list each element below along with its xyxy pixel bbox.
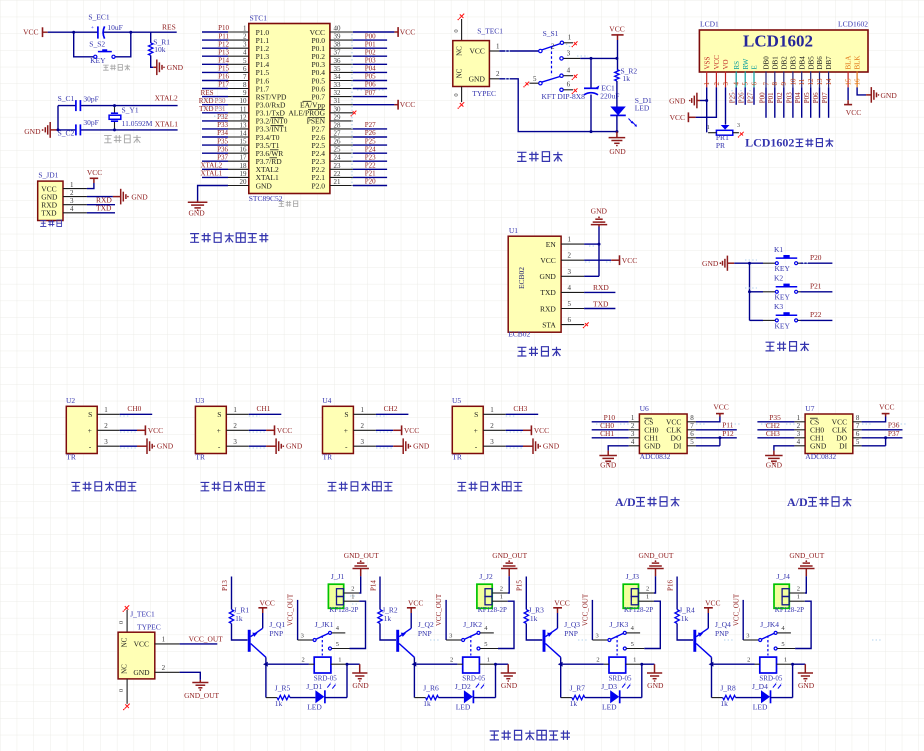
- wire pin 33: [353, 88, 387, 90]
- svg-text:2: 2: [551, 42, 555, 50]
- svg-text:6: 6: [690, 430, 694, 438]
- svg-text:P2.0: P2.0: [311, 181, 325, 190]
- wire pin 3: [202, 47, 228, 49]
- svg-text:3: 3: [490, 438, 494, 446]
- ground (U5): [506, 445, 523, 447]
- junction: [590, 130, 593, 133]
- wire pin 22: [353, 176, 387, 178]
- svg-text:J_Q2: J_Q2: [418, 620, 434, 629]
- U5 pin 1: [483, 413, 506, 415]
- svg-text:14: 14: [240, 130, 248, 138]
- svg-text:P03: P03: [365, 57, 376, 65]
- svg-text:P10: P10: [218, 24, 229, 32]
- wire R to base: [677, 624, 693, 641]
- svg-text:J_R6: J_R6: [423, 684, 439, 693]
- svg-text:KEY: KEY: [90, 56, 106, 65]
- svg-text:VCC_OUT: VCC_OUT: [582, 593, 590, 626]
- ground (U2): [120, 445, 137, 447]
- svg-text:LED: LED: [635, 104, 650, 113]
- svg-text:TR: TR: [452, 452, 462, 461]
- svg-text:P02: P02: [776, 92, 784, 103]
- U6 pin 1 CS: [629, 421, 640, 423]
- svg-text:J_Q3: J_Q3: [564, 620, 580, 629]
- wire DI link: [696, 445, 720, 447]
- svg-text:10: 10: [240, 97, 248, 105]
- MCU pin 26 P2.5: [330, 144, 353, 146]
- MCU pin 30 ALE/PROG: [330, 112, 353, 114]
- svg-text:P33: P33: [217, 121, 228, 129]
- svg-text:GND_OUT: GND_OUT: [789, 551, 824, 560]
- svg-text:GND: GND: [702, 259, 719, 268]
- svg-text:GND: GND: [256, 181, 273, 190]
- wire pin 37: [353, 55, 387, 57]
- title turangshidujiance 4: [457, 482, 522, 491]
- svg-text:6: 6: [567, 81, 571, 89]
- svg-text:3: 3: [797, 430, 801, 438]
- U7 pin 5 DI: [853, 445, 862, 447]
- svg-text:P21: P21: [810, 281, 822, 290]
- svg-text:1: 1: [338, 657, 341, 664]
- svg-text:10uF: 10uF: [107, 23, 122, 32]
- svg-text:LED: LED: [602, 703, 617, 712]
- svg-text:U6: U6: [640, 404, 649, 413]
- wire RXD: [87, 204, 115, 206]
- MCU pin 38 P0.1: [330, 47, 353, 49]
- MCU pin 14 P3.4/T0: [228, 136, 249, 138]
- svg-text:31: 31: [334, 97, 342, 105]
- svg-text:TR: TR: [66, 452, 76, 461]
- power port VCC (U2): [120, 429, 137, 431]
- svg-text:RW: RW: [742, 58, 750, 69]
- MCU pin 34 P0.5: [330, 80, 353, 82]
- wire base node to relay pin2: [563, 663, 604, 665]
- svg-text:GND_OUT: GND_OUT: [344, 551, 379, 560]
- wire CH2: [757, 429, 794, 431]
- junction: [598, 243, 601, 246]
- connector S_TEC1 TYPEC: [459, 14, 464, 19]
- power port VCC (pin40): [353, 31, 395, 33]
- svg-text:U5: U5: [452, 396, 461, 405]
- wire P15 to R: [525, 577, 527, 610]
- svg-text:BLK: BLK: [854, 56, 862, 70]
- svg-text:VCC: VCC: [404, 426, 419, 435]
- wire P10: [592, 421, 629, 423]
- svg-text:VCC: VCC: [400, 27, 415, 36]
- junction: [705, 99, 708, 102]
- connector J_TEC1 TYPEC: [124, 605, 129, 610]
- wire pin 39: [353, 39, 387, 41]
- svg-text:0: 0: [453, 93, 460, 96]
- svg-text:39: 39: [334, 33, 342, 41]
- U6 pin 5 DI: [687, 445, 696, 447]
- wire LED to node: [473, 697, 495, 699]
- MCU pin 16 P3.6/WR: [228, 152, 249, 154]
- U7 pin 1 CS: [794, 421, 805, 423]
- wire VO pin3: [725, 87, 727, 124]
- svg-text:28: 28: [334, 121, 342, 129]
- MCU pin 24 P2.3: [330, 160, 353, 162]
- svg-text:VCC: VCC: [670, 113, 685, 122]
- wire key P21: [801, 291, 833, 293]
- svg-text:VCC: VCC: [260, 598, 275, 607]
- svg-text:P00: P00: [758, 92, 766, 103]
- svg-text:2: 2: [361, 422, 365, 430]
- svg-text:ADC0832: ADC0832: [640, 452, 671, 461]
- svg-text:S: S: [344, 410, 348, 419]
- wire P13 to R: [231, 577, 233, 610]
- svg-text:RES: RES: [201, 89, 214, 97]
- svg-text:P16: P16: [218, 73, 229, 81]
- MCU pin 39 P0.0: [330, 39, 353, 41]
- wire pin 15: [202, 144, 228, 146]
- wire pin 10: [202, 104, 228, 106]
- MCU pin 29 PSEN: [330, 120, 353, 122]
- wire pin 9: [202, 96, 228, 98]
- wire pin 38: [353, 47, 387, 49]
- svg-text:3: 3: [722, 82, 730, 86]
- svg-text:1: 1: [784, 657, 787, 664]
- svg-text:4: 4: [568, 284, 572, 292]
- svg-text:3: 3: [243, 41, 247, 49]
- svg-text:2: 2: [104, 422, 108, 430]
- svg-text:35: 35: [334, 65, 342, 73]
- svg-text:P01: P01: [767, 92, 775, 103]
- wire VCC_OUT to JK1: [297, 600, 299, 640]
- svg-text:GND: GND: [501, 681, 518, 690]
- svg-text:2: 2: [747, 657, 750, 664]
- svg-text:2: 2: [631, 422, 635, 430]
- svg-text:DB0: DB0: [763, 56, 771, 70]
- svg-text:TXD: TXD: [540, 288, 556, 297]
- ground (reset): [151, 55, 154, 67]
- svg-text:RXD: RXD: [199, 97, 214, 105]
- svg-text:1: 1: [500, 594, 503, 601]
- MCU pin 4 P1.3: [228, 55, 249, 57]
- svg-text:VCC_OUT: VCC_OUT: [435, 593, 443, 626]
- svg-text:J_J4: J_J4: [777, 572, 791, 581]
- wire pin 17: [202, 160, 228, 162]
- power port VCC (U6): [696, 417, 720, 422]
- svg-text:+: +: [474, 426, 478, 435]
- power port VCC (U5): [506, 429, 523, 431]
- svg-text:J_J1: J_J1: [331, 572, 345, 581]
- svg-text:GND: GND: [543, 442, 560, 451]
- svg-text:VCC: VCC: [277, 426, 292, 435]
- svg-text:7: 7: [856, 422, 860, 430]
- svg-text:K3: K3: [774, 302, 783, 311]
- svg-text:P23: P23: [365, 153, 376, 161]
- wire key bus: [734, 262, 763, 264]
- svg-text:24: 24: [334, 154, 342, 162]
- selection artifacts: [204, 99, 224, 101]
- svg-text:VCC_OUT: VCC_OUT: [732, 593, 740, 626]
- ground (LCD): [700, 100, 707, 102]
- wire pin 5: [202, 63, 228, 65]
- svg-text:J_JK2: J_JK2: [463, 620, 482, 629]
- svg-text:+: +: [88, 426, 92, 435]
- svg-text:XTAL2: XTAL2: [201, 162, 223, 170]
- svg-text:P26: P26: [365, 129, 376, 137]
- svg-text:1k: 1k: [384, 614, 392, 623]
- junction: [346, 663, 349, 666]
- svg-text:2: 2: [496, 70, 500, 78]
- svg-text:5: 5: [742, 82, 750, 86]
- svg-text:25: 25: [334, 146, 342, 154]
- svg-text:1k: 1k: [681, 614, 689, 623]
- MCU pin 10 P3.0/RxD: [228, 104, 249, 106]
- svg-text:VCC: VCC: [400, 100, 415, 109]
- power port VCC (bluetooth): [584, 259, 611, 261]
- wire pin 28: [353, 128, 387, 130]
- svg-text:4: 4: [797, 438, 801, 446]
- svg-text:LCD1602: LCD1602: [743, 32, 813, 51]
- svg-text:XTAL1: XTAL1: [201, 170, 223, 178]
- svg-text:P07: P07: [365, 89, 376, 97]
- svg-text:ECB02: ECB02: [517, 267, 526, 289]
- relay coil SRD-05 (ch4): [760, 657, 777, 673]
- U6 pin 8 VCC: [687, 421, 696, 423]
- svg-text:KF128-2P: KF128-2P: [329, 606, 358, 614]
- U4 pin 2: [353, 429, 376, 431]
- svg-text:KEY: KEY: [775, 293, 791, 302]
- svg-text:EN: EN: [546, 240, 557, 249]
- svg-text:P02: P02: [365, 48, 376, 56]
- title anjiandianlu: [766, 342, 810, 351]
- svg-text:LED: LED: [456, 703, 471, 712]
- wire LED to node: [771, 697, 793, 699]
- svg-text:1: 1: [646, 594, 649, 601]
- U2 pin 3: [97, 445, 120, 447]
- wire LED branch left: [265, 664, 267, 697]
- svg-text:K1: K1: [774, 245, 783, 254]
- svg-text:VO: VO: [722, 59, 730, 69]
- svg-text:A/D: A/D: [787, 495, 808, 509]
- svg-text:GND: GND: [600, 460, 617, 469]
- wire LED to node: [325, 697, 347, 699]
- svg-text:J_D3: J_D3: [601, 682, 617, 691]
- wire pin 23: [353, 168, 387, 170]
- wire pin 34: [353, 80, 387, 82]
- U6 pin 6 DO: [687, 437, 696, 439]
- wire collector: [560, 657, 562, 664]
- svg-text:P35: P35: [217, 137, 228, 145]
- ground (U7): [774, 446, 795, 451]
- svg-text:1: 1: [70, 181, 74, 189]
- no-ERC pin30: [352, 111, 356, 115]
- power ground GND_OUT (TEC1): [180, 672, 201, 680]
- svg-text:VCC: VCC: [469, 47, 484, 56]
- wire EN to GND: [584, 243, 599, 245]
- junction: [884, 436, 887, 439]
- svg-text:J_JK1: J_JK1: [315, 620, 334, 629]
- junction: [718, 436, 721, 439]
- wire key P22: [801, 319, 833, 321]
- svg-text:1: 1: [233, 406, 237, 414]
- svg-text:GND: GND: [591, 206, 608, 215]
- svg-text:CH3: CH3: [513, 404, 527, 413]
- wire CH0: [120, 413, 153, 415]
- junction: [615, 57, 618, 60]
- U3 pin 2: [226, 429, 249, 431]
- svg-text:2: 2: [596, 657, 599, 664]
- svg-text:CH3: CH3: [766, 429, 780, 438]
- wire R to base: [526, 624, 542, 641]
- svg-text:RXD: RXD: [540, 304, 556, 313]
- junction: [72, 31, 75, 34]
- svg-text:SRD-05: SRD-05: [314, 674, 337, 682]
- svg-text:J_J3: J_J3: [626, 572, 640, 581]
- MCU pin 27 P2.6: [330, 136, 353, 138]
- svg-text:15: 15: [240, 138, 248, 146]
- svg-text:32: 32: [334, 89, 342, 97]
- svg-text:NC: NC: [121, 664, 129, 674]
- svg-text:2: 2: [713, 82, 721, 86]
- svg-text:GND: GND: [286, 442, 303, 451]
- svg-text:VCC: VCC: [879, 403, 894, 412]
- svg-text:2: 2: [646, 585, 649, 592]
- wire collector: [413, 657, 415, 664]
- title turangshidujiance 2: [201, 482, 266, 491]
- svg-text:1: 1: [568, 33, 572, 41]
- wire TXD pin4: [584, 291, 615, 293]
- svg-text:11: 11: [798, 78, 806, 85]
- MCU pin 7 P1.6: [228, 80, 249, 82]
- label danpianji: [279, 201, 298, 207]
- svg-text:RS: RS: [733, 61, 741, 70]
- MCU pin 32 P0.7: [330, 96, 353, 98]
- svg-text:J_TEC1: J_TEC1: [130, 609, 155, 618]
- title danpianjizuixiaoxitong: [190, 233, 268, 242]
- U7 pin 4 GND: [794, 445, 805, 447]
- svg-text:2: 2: [450, 657, 453, 664]
- svg-text:5: 5: [336, 641, 339, 648]
- svg-text:LCD1602: LCD1602: [745, 135, 794, 149]
- svg-text:P16: P16: [667, 580, 675, 591]
- wire pin 36: [353, 63, 387, 65]
- svg-text:DB6: DB6: [816, 56, 824, 70]
- svg-text:P12: P12: [722, 429, 734, 438]
- MCU pin 3 P1.2: [228, 47, 249, 49]
- wire LED branch left: [711, 664, 713, 697]
- wire pin 7: [202, 80, 228, 82]
- svg-text:9: 9: [243, 89, 247, 97]
- wire pin 2: [202, 39, 228, 41]
- wire LED branch left: [560, 664, 562, 697]
- svg-text:KEY: KEY: [775, 321, 791, 330]
- svg-text:1k: 1k: [235, 614, 243, 623]
- svg-text:PR: PR: [716, 141, 725, 150]
- svg-text:P06: P06: [812, 92, 820, 103]
- wire GND_OUT to J4: [805, 576, 807, 593]
- svg-text:1: 1: [633, 657, 636, 664]
- junction: [494, 663, 497, 666]
- ground (MCU): [197, 201, 199, 203]
- label jingzhendianlu: [104, 135, 141, 143]
- svg-text:J_JK3: J_JK3: [610, 620, 629, 629]
- wire P35: [757, 421, 794, 423]
- svg-text:P25: P25: [729, 92, 737, 103]
- wire pin 8: [202, 88, 228, 90]
- svg-text:1: 1: [496, 43, 500, 51]
- svg-text:J_R8: J_R8: [720, 684, 736, 693]
- wire LED to node: [620, 697, 642, 699]
- wire pin 11: [202, 112, 228, 114]
- svg-text:VCC: VCC: [134, 640, 149, 649]
- junction: [129, 31, 132, 34]
- svg-text:GND: GND: [669, 97, 686, 106]
- U2 pin 2: [97, 429, 120, 431]
- wire CH1: [249, 413, 281, 415]
- svg-text:PNP: PNP: [564, 629, 578, 638]
- title jidianqikongzhidianlu: [490, 730, 570, 740]
- svg-text:40: 40: [334, 25, 342, 33]
- wire CH3: [506, 413, 539, 415]
- MCU pin 18 XTAL2: [228, 168, 249, 170]
- title turangshidujiance 1: [71, 482, 136, 491]
- MCU pin 6 P1.5: [228, 71, 249, 73]
- wire GND branch: [499, 79, 617, 132]
- wire base node to relay pin2: [416, 663, 457, 665]
- svg-text:5: 5: [781, 641, 784, 648]
- svg-text:2: 2: [797, 585, 800, 592]
- wire R to base: [380, 624, 396, 641]
- svg-text:J_D2: J_D2: [455, 682, 471, 691]
- wire pin 13: [202, 128, 228, 130]
- MCU pin 9 RST/VPD: [228, 96, 249, 98]
- wire CH0: [592, 429, 629, 431]
- svg-text:P32: P32: [217, 113, 228, 121]
- svg-text:XTAL2: XTAL2: [155, 94, 178, 103]
- svg-text:TR: TR: [195, 452, 205, 461]
- wire CH1: [592, 437, 629, 439]
- svg-text:27: 27: [334, 130, 342, 138]
- wire RXD pin5: [584, 308, 615, 310]
- junction: [590, 57, 593, 60]
- svg-text:2: 2: [70, 189, 74, 197]
- MCU pin 25 P2.4: [330, 152, 353, 154]
- svg-text:5: 5: [533, 75, 537, 83]
- svg-text:GND: GND: [157, 442, 174, 451]
- wire VSS: [706, 87, 708, 132]
- svg-text:TYPEC: TYPEC: [137, 623, 161, 632]
- wire VCC_OUT to JK2: [445, 600, 447, 640]
- wire crystal left: [57, 106, 59, 130]
- svg-text:6: 6: [568, 316, 572, 324]
- wire VCC_OUT to JK4: [742, 600, 744, 640]
- wire DI link: [862, 445, 886, 447]
- svg-text:P34: P34: [217, 129, 228, 137]
- svg-text:1: 1: [797, 594, 800, 601]
- U7 pin 7 CLK: [853, 429, 862, 431]
- svg-text:13: 13: [816, 78, 824, 86]
- svg-text:1: 1: [361, 406, 365, 414]
- wire R to base: [232, 624, 248, 641]
- svg-text:S_Y1: S_Y1: [122, 105, 139, 114]
- svg-text:2: 2: [351, 585, 354, 592]
- ground (ch1): [347, 663, 360, 665]
- label xiazaikou: [40, 220, 61, 226]
- svg-text:NC: NC: [456, 68, 464, 78]
- wire collector: [711, 657, 713, 664]
- svg-text:34: 34: [334, 73, 342, 81]
- wire pin 21: [353, 185, 387, 187]
- svg-text:TYPEC: TYPEC: [472, 89, 496, 98]
- svg-text:S: S: [88, 410, 92, 419]
- svg-text:14: 14: [825, 78, 833, 86]
- svg-text:2: 2: [162, 664, 166, 672]
- wire P16 to R: [676, 577, 678, 610]
- svg-text:XTAL1: XTAL1: [155, 120, 178, 129]
